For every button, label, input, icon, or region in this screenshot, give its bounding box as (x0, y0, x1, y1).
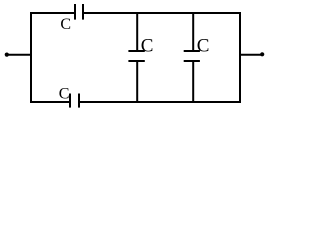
svg-text:C: C (59, 86, 70, 103)
svg-text:C: C (60, 16, 71, 33)
svg-text:C: C (141, 36, 154, 57)
svg-text:C: C (197, 36, 210, 57)
